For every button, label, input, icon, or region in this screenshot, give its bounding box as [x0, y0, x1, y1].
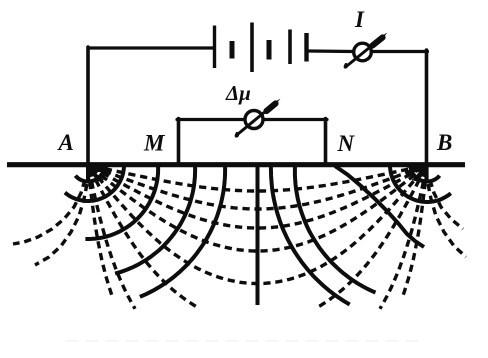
battery E (three cells) — [215, 23, 307, 73]
equipotential arc around A r71 — [85, 166, 158, 239]
wire: electrode B lead (right vertical) — [425, 50, 429, 164]
wire: voltmeter to N — [264, 118, 328, 121]
ammeter I (circle with needle arrow) — [345, 33, 387, 68]
ground surface line — [7, 162, 465, 167]
current line into B (78.0 deg, exits bottom) — [380, 170, 426, 309]
equipotential center vertical — [256, 167, 260, 305]
current line into B (84.0 deg, fades below A) — [403, 170, 427, 297]
current line stub lower-left 1 — [13, 180, 85, 244]
equipotential arc around B r37 — [390, 166, 451, 202]
wire: ammeter to top-right corner — [373, 50, 428, 53]
current line from A (84.0 deg, fades below A) — [89, 170, 113, 297]
svg-text:I: I — [354, 7, 365, 32]
current line A to B (mid depth 44.0) — [93, 167, 422, 209]
equipotential arc around B r16 — [411, 167, 440, 182]
wire: top-left horizontal from A lead to battery — [88, 46, 214, 49]
electrode A stake and arrow blob — [86, 164, 109, 182]
voltmeter (circle with needle arrow) — [236, 99, 280, 137]
equipotential arc around B r157 — [271, 165, 350, 305]
svg-text:Δμ: Δμ — [225, 81, 251, 105]
current line into B (62.6 deg, exits bottom) — [315, 169, 425, 308]
svg-text:A: A — [57, 130, 74, 155]
equipotential arc around A r16 — [75, 167, 104, 182]
current line stub lower-right 2 — [428, 184, 466, 257]
wire: electrode M lead — [177, 119, 181, 165]
equipotential arc around A r108 — [115, 165, 195, 274]
current line from A (62.6 deg, exits bottom) — [90, 169, 200, 308]
current line stub lower-right 1 — [430, 180, 463, 229]
wire: electrode A lead (left vertical) — [86, 47, 90, 164]
electrode B stake and arrow blob — [407, 164, 429, 182]
current line from A (78.0 deg, exits bottom) — [89, 170, 135, 309]
wire: battery to ammeter — [309, 49, 353, 53]
current line A to B (mid depth 86.0) — [92, 168, 423, 251]
wire: electrode N lead — [324, 119, 328, 165]
equipotential arc around B r134 — [295, 165, 376, 293]
equipotential arc around A r36 — [65, 166, 124, 201]
wire: M to voltmeter — [177, 118, 245, 121]
equipotential arc around A r139 — [140, 165, 225, 297]
svg-text:B: B — [436, 130, 452, 155]
svg-text:M: M — [143, 131, 166, 156]
current line A to B (mid depth 26.0) — [93, 166, 422, 191]
faded caption remnants — [66, 340, 425, 342]
current line A to B (mid depth 118.5) — [91, 168, 425, 283]
equipotential arc around B r88 — [335, 166, 424, 247]
current line stub lower-left 2 — [35, 184, 87, 265]
current line A to B (mid depth 63.0) — [92, 167, 423, 228]
svg-text:N: N — [337, 131, 356, 156]
